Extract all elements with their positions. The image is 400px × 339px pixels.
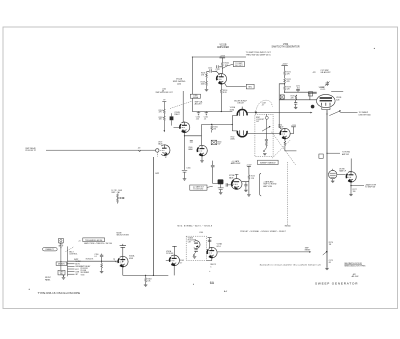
svg-text:12AU7: 12AU7 — [174, 113, 180, 116]
transistor tube V152A miller lower shell — [237, 130, 247, 136]
svg-text:(1/2): (1/2) — [177, 83, 181, 85]
svg-text:PICKOFF: PICKOFF — [166, 253, 173, 255]
wire leader gate box — [207, 186, 213, 187]
wire V173A plate feed — [208, 238, 212, 249]
capacitor grid entry — [226, 183, 231, 186]
svg-text:330: 330 — [353, 191, 356, 193]
wire dashed stub below connector — [156, 152, 158, 156]
resistor R163 — [145, 278, 147, 283]
resistor R152 grid leak — [206, 81, 208, 86]
wire y133.7 miller to V161 — [247, 132, 280, 134]
svg-text:6A: 6A — [210, 281, 215, 285]
wire pot ground — [332, 179, 334, 181]
svg-text:CONTROL: CONTROL — [69, 253, 77, 255]
wire +225 dropper chain — [284, 66, 286, 93]
potentiometer circle — [329, 170, 337, 178]
ground tube2 — [200, 161, 204, 163]
svg-text:TP: TP — [165, 157, 168, 159]
capacitor inside box — [265, 139, 268, 140]
resistor R174 — [248, 175, 250, 180]
wire tube top terminal — [235, 174, 239, 178]
wire diode arrow holdoff — [194, 251, 196, 255]
capacitor C171 — [296, 89, 300, 92]
resistor V161 cathode — [284, 141, 286, 146]
svg-text:DELAY'D: DELAY'D — [58, 263, 66, 266]
svg-text:5: 5 — [210, 266, 211, 268]
svg-text:J20: J20 — [138, 147, 141, 149]
svg-text:68: 68 — [329, 262, 331, 264]
wire cathode to ground cap — [185, 133, 202, 179]
wire tube2 bottom ground — [201, 156, 203, 160]
node small box on rail — [309, 92, 313, 96]
svg-text:0.1: 0.1 — [94, 256, 96, 258]
transistor tube V173A gate amp — [207, 247, 217, 258]
ground osc cathode — [183, 179, 187, 181]
svg-text:SEL: SEL — [248, 87, 252, 89]
node junction dots — [60, 57, 351, 277]
svg-text:100K: 100K — [201, 84, 206, 86]
node speck dots — [192, 283, 195, 286]
wire sweep length arrow — [329, 111, 340, 116]
wire switch fan vertical — [66, 246, 69, 276]
tube V152B plates dark — [320, 97, 332, 99]
svg-text:+225V: +225V — [220, 56, 226, 58]
wire sawtooth CF plate feed — [350, 159, 352, 173]
svg-text:TP: TP — [113, 259, 116, 261]
svg-text:L164: L164 — [199, 232, 203, 234]
wire down to tube2 — [201, 125, 203, 146]
transistor tube V152A oscillator — [180, 122, 190, 133]
wire trigger pickoff y261 — [68, 260, 118, 262]
resistor inside box — [265, 142, 267, 147]
wire miller grid vertical — [232, 116, 237, 131]
svg-text:SAWTOOTH GENERATOR: SAWTOOTH GENERATOR — [271, 46, 299, 49]
node: dashed holdoff box — [186, 236, 206, 260]
svg-text:4.7: 4.7 — [180, 262, 182, 264]
svg-text:∿: ∿ — [209, 270, 211, 273]
svg-text:TYPE RM-16 OSCILLOSCOPE: TYPE RM-16 OSCILLOSCOPE — [38, 291, 81, 295]
resistor R154 — [163, 109, 165, 114]
transformer T160 core — [170, 116, 174, 120]
wire V161 cathode — [285, 139, 297, 151]
svg-text:.001: .001 — [296, 87, 299, 89]
capacitor left of V152B — [294, 100, 297, 107]
svg-text:SELECTOR SW: SELECTOR SW — [117, 235, 130, 237]
svg-text:Sawtooth to vertical amplifier: Sawtooth to vertical amplifier thru cath… — [260, 264, 321, 267]
ground inside box — [263, 153, 267, 155]
node triggering mode box — [83, 238, 105, 242]
resistor R175 series — [295, 95, 297, 100]
node bracket gate out — [259, 173, 261, 196]
svg-text:22K: 22K — [291, 98, 295, 100]
svg-text:SAW CF: SAW CF — [339, 170, 346, 173]
svg-text:.001: .001 — [196, 119, 199, 121]
transistor tube V173B sawtooth CF — [346, 172, 356, 183]
svg-text:+225V: +225V — [282, 63, 288, 65]
node TP terminal — [162, 101, 166, 103]
power +225V terminal top — [220, 57, 226, 59]
wire resistor column — [163, 102, 165, 131]
resistor R151 — [221, 62, 223, 67]
transistor tube V162 — [118, 256, 128, 267]
svg-text:SWP · CAL: SWP · CAL — [111, 191, 120, 194]
diode box B160 with X — [211, 140, 216, 144]
ground right vertical — [325, 268, 329, 270]
svg-text:10K: 10K — [147, 281, 151, 283]
svg-text:C151: C151 — [208, 67, 212, 69]
svg-text:THRU SW 160 (SWP DLY): THRU SW 160 (SWP DLY) — [246, 55, 271, 57]
node: SEL box — [246, 84, 254, 89]
svg-text:ADJUST: ADJUST — [195, 103, 203, 106]
svg-text:+G: +G — [78, 241, 81, 243]
node neon at box top — [265, 116, 268, 119]
svg-text:+150V: +150V — [246, 165, 252, 167]
diode box with X on branch — [280, 95, 284, 99]
node delayed box — [56, 262, 67, 266]
wire plate supply V151B — [221, 58, 223, 74]
wire dashed switch linkage vertical — [287, 162, 289, 225]
svg-text:10K: 10K — [159, 119, 163, 121]
svg-text:47K: 47K — [287, 74, 291, 76]
capacitor C190 — [100, 254, 103, 262]
svg-text:6AU6: 6AU6 — [229, 176, 233, 179]
svg-text:.01: .01 — [204, 119, 206, 121]
power terminal above V161A — [172, 246, 176, 255]
svg-text:1M: 1M — [213, 129, 216, 131]
resistor R172 — [284, 78, 286, 83]
wire front panel vertical — [60, 243, 62, 271]
svg-text:A-2: A-2 — [223, 290, 228, 293]
wire plate output V151B — [224, 83, 246, 87]
svg-text:6DJ8: 6DJ8 — [129, 258, 133, 260]
svg-text:4.5-25: 4.5-25 — [320, 89, 325, 91]
svg-text:100MH: 100MH — [193, 97, 199, 99]
wire dashed diagonal linkage 2 — [272, 140, 290, 158]
svg-text:SWEEP GENERATOR: SWEEP GENERATOR — [315, 282, 358, 286]
svg-text:PANEL: PANEL — [45, 278, 50, 281]
svg-text:AMP V180: AMP V180 — [263, 185, 272, 188]
svg-text:CKT: CKT — [256, 121, 259, 123]
svg-text:1M: 1M — [329, 244, 332, 246]
wire grid V151B — [207, 72, 220, 75]
ground holdoff — [193, 257, 197, 259]
wire +150 drop — [242, 166, 249, 194]
ground under cap — [294, 107, 298, 109]
svg-text:PRESET • NORMAL • SINGLE SWEEP: PRESET • NORMAL • SINGLE SWEEP • RESET — [240, 230, 286, 233]
svg-text:R190 47K: R190 47K — [86, 259, 94, 261]
wire pot arrow crossing — [262, 127, 270, 132]
capacitor C152 — [217, 65, 223, 68]
svg-text:AMPLIFIER: AMPLIFIER — [217, 46, 229, 49]
wire miller feedback y112.6 with arrow — [247, 112, 311, 114]
capacitor C156 — [182, 170, 187, 172]
svg-text:C156: C156 — [186, 168, 190, 170]
ground +150 drop — [247, 195, 251, 197]
svg-text:6CL6: 6CL6 — [217, 246, 221, 248]
svg-text:CKT: CKT — [188, 242, 191, 244]
wire pot to tube — [337, 174, 346, 176]
svg-text:AMP SW: AMP SW — [342, 153, 349, 156]
node connector circle — [156, 149, 159, 152]
svg-text:SEMICONDUCTOR TYPES: SEMICONDUCTOR TYPES — [344, 265, 366, 267]
svg-text:TO CRT CKT: TO CRT CKT — [193, 188, 203, 190]
svg-text:12AU7: 12AU7 — [278, 125, 284, 128]
svg-text:47K: 47K — [287, 81, 291, 83]
wire dashed linkage front panel — [66, 247, 75, 252]
wire gate amp cathode — [207, 258, 212, 261]
svg-text:(6U8): (6U8) — [230, 139, 235, 141]
wire leader to swp dly box — [222, 64, 233, 68]
wire x212.7 column with cap — [213, 161, 218, 184]
svg-text:INT: INT — [75, 274, 78, 276]
wire V162 cathode row — [123, 267, 169, 275]
capacitor screen bypass — [244, 182, 247, 190]
wire cathode sawtooth out — [351, 182, 364, 194]
node trig input box — [59, 238, 64, 243]
svg-text:RESET: RESET — [305, 250, 311, 252]
capacitor above V162 — [120, 244, 126, 256]
svg-text:CIRCUIT: CIRCUIT — [237, 103, 244, 105]
wire grid segment — [331, 90, 343, 92]
svg-text:TRIGGERING MODE: TRIGGERING MODE — [85, 240, 103, 242]
wire long left vertical — [152, 157, 154, 275]
wire down arrow -150V — [164, 130, 166, 132]
svg-text:47K: 47K — [159, 112, 163, 114]
transistor tube V161 — [280, 128, 290, 139]
svg-text:SWP: SWP — [74, 259, 79, 261]
node: dashed lockout box — [255, 114, 273, 156]
wire rail y124.5 — [202, 124, 233, 126]
ground front panel — [62, 278, 66, 280]
junction dot pot wiper — [311, 105, 315, 109]
resistor R171 — [284, 71, 286, 76]
capacitor on V173A feed — [208, 240, 211, 241]
svg-text:6AU6: 6AU6 — [158, 143, 162, 146]
svg-text:CAL ADJUST: CAL ADJUST — [320, 71, 330, 74]
op-amp tube V152B envelope — [317, 94, 336, 107]
wire inside holdoff box — [195, 249, 197, 250]
svg-text:AG 6-58: AG 6-58 — [351, 275, 359, 278]
wire: top rail to sweep trigger — [192, 57, 246, 112]
resistor R155 — [163, 116, 165, 121]
svg-text:47K: 47K — [313, 72, 317, 74]
svg-text:SWP: SWP — [155, 173, 160, 175]
svg-text:2.2K: 2.2K — [251, 178, 255, 180]
wire variable arrow inside box — [264, 148, 267, 151]
transistor tube V152A miller upper shell — [237, 107, 247, 116]
transistor tube V173A — [231, 179, 242, 190]
wire branch to V161 plate — [279, 84, 284, 130]
capacitor under electrolytic — [218, 188, 224, 192]
capacitor C160 — [197, 112, 200, 116]
wire rail y99.8 — [279, 93, 317, 100]
capacitor C161 — [205, 112, 208, 116]
svg-text:8.2K: 8.2K — [223, 92, 227, 94]
wire rail y92.2 — [285, 91, 317, 93]
transistor tube V159 pickoff CF — [160, 145, 170, 156]
svg-text:MOD. NORMAL • AUTO. • SINGLE: MOD. NORMAL • AUTO. • SINGLE — [178, 225, 213, 228]
svg-text:SWEEP TIME/DIV: SWEEP TIME/DIV — [260, 162, 276, 164]
wire grid rail y111.5 — [192, 111, 232, 113]
resistor R191 — [101, 263, 103, 268]
node: L160 box — [190, 94, 200, 98]
svg-text:27K: 27K — [201, 75, 205, 77]
wire dashed diagonal linkage 1 — [272, 132, 296, 165]
wire dashed switch linkage — [170, 101, 193, 109]
resistor R153 cathode — [220, 89, 222, 94]
svg-text:6U8: 6U8 — [336, 99, 339, 101]
resistor R173 — [284, 86, 286, 91]
capacitor electrolytic dark — [218, 179, 224, 184]
wire tube legs — [322, 107, 330, 109]
ground R191 — [100, 271, 104, 273]
ground R163 — [144, 285, 148, 287]
ground screen bypass — [244, 190, 248, 192]
svg-text:T190: T190 — [81, 274, 85, 276]
wire switch fan contacts — [68, 261, 75, 274]
svg-text:SWP HOLDOFF CKT: SWP HOLDOFF CKT — [156, 92, 174, 94]
wire grid stub — [174, 126, 180, 128]
power +225V terminal mid — [281, 65, 287, 67]
wire stub to horiz amp — [327, 152, 340, 154]
svg-text:PICKOFF TP: PICKOFF TP — [25, 150, 36, 152]
transistor small tube in holdoff box — [194, 241, 200, 249]
op-amp tube V151B — [217, 74, 227, 85]
node gate selector box — [58, 270, 65, 275]
wire cathode V151B — [220, 84, 222, 111]
ground below R152 — [205, 89, 209, 91]
capacitor C151 coupling — [210, 69, 212, 72]
wire inside box — [265, 119, 267, 148]
capacitor on column — [211, 165, 215, 166]
node connector mark on line — [138, 150, 140, 152]
wire pot wiper arrow on vertical — [323, 252, 327, 255]
wire gate amp output — [217, 251, 309, 253]
transistor tube V160 holdoff — [197, 145, 207, 156]
svg-text:DLY CKT: DLY CKT — [235, 65, 243, 67]
svg-text:90V: 90V — [217, 143, 221, 145]
capacitor C159 — [190, 141, 193, 142]
capacitor trimmer C172 — [326, 81, 330, 86]
svg-text:SEL: SEL — [60, 273, 63, 275]
svg-text:TP: TP — [163, 100, 166, 102]
transistor tube V161A — [170, 255, 180, 266]
svg-text:6AN8: 6AN8 — [188, 148, 192, 151]
power +125V terminal — [290, 127, 296, 134]
wire gate box ground — [63, 275, 65, 277]
wire osc plate feed — [182, 91, 184, 122]
node: (+)gate out box — [190, 185, 207, 190]
svg-text:STABILITY: STABILITY — [45, 248, 55, 251]
svg-text:SW160: SW160 — [285, 226, 291, 228]
wire V161A stubs — [166, 260, 174, 275]
node: sweep time/div boxed label — [258, 160, 279, 164]
capacitor holdoff — [194, 250, 198, 251]
node: boxed to-sweep-delay label — [233, 62, 244, 67]
node small box on right vertical — [319, 154, 323, 158]
power +150 terminal right — [247, 165, 251, 167]
svg-text:(6U8): (6U8) — [230, 109, 235, 111]
wire dashed feedback arc C167 — [255, 100, 272, 113]
svg-text:12K: 12K — [287, 89, 291, 91]
svg-text:4.7: 4.7 — [262, 104, 264, 106]
ground sawtooth CF — [349, 194, 353, 196]
svg-text:+125V: +125V — [291, 125, 297, 127]
svg-text:AMPLITUDE • TIME/DIV • SW 160: AMPLITUDE • TIME/DIV • SW 160 — [84, 242, 112, 245]
wire long trigger line y150 — [46, 149, 156, 151]
svg-text:LENGTH R160: LENGTH R160 — [359, 114, 371, 116]
ground gate column — [219, 193, 223, 195]
svg-text:TO SWP SW: TO SWP SW — [365, 187, 375, 189]
resistor R150 upper — [206, 73, 208, 78]
svg-text:GATE: GATE — [60, 271, 64, 274]
svg-text:AMPLIFIER: AMPLIFIER — [231, 162, 241, 165]
wire long right vertical — [326, 110, 328, 268]
node stability oval — [43, 248, 58, 251]
resistor R161 — [211, 126, 213, 131]
